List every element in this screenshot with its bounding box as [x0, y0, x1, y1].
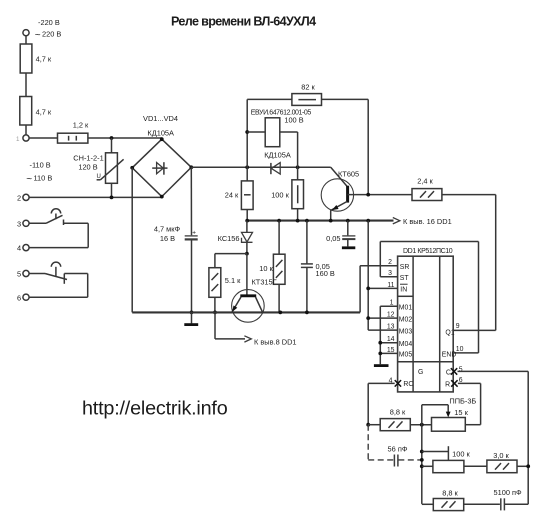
svg-text:END: END — [442, 352, 457, 359]
svg-text:6: 6 — [17, 293, 21, 302]
svg-text:КД105А: КД105А — [264, 151, 291, 160]
svg-text:1,2 к: 1,2 к — [73, 120, 89, 129]
svg-text:8,8 к: 8,8 к — [442, 488, 458, 497]
pin SR 2 — [360, 265, 398, 267]
wire main positive net y=167.3 — [191, 166, 330, 168]
pin Q1 9 — [453, 329, 496, 331]
svg-text:100 к: 100 к — [271, 191, 289, 200]
resistor 5,1k — [214, 254, 216, 268]
svg-text:15: 15 — [387, 347, 395, 354]
svg-text:R: R — [445, 381, 450, 388]
wire — [190, 167, 192, 235]
svg-text:3: 3 — [388, 270, 392, 277]
svg-text:VD1...VD4: VD1...VD4 — [143, 114, 178, 123]
svg-text:8,8 к: 8,8 к — [390, 407, 406, 416]
wire IN/M02/M03 vertical — [367, 221, 369, 331]
IC DD1 KR512PS10 — [398, 256, 454, 392]
svg-text:DD1 КР512ПС10: DD1 КР512ПС10 — [403, 248, 453, 255]
wire to pin 8 — [214, 312, 216, 339]
relay K1 EVUI.647612.001-05 — [247, 131, 265, 133]
svg-text:24 к: 24 к — [225, 191, 239, 200]
svg-text:4,7 к: 4,7 к — [36, 54, 52, 63]
svg-text:ST: ST — [400, 275, 410, 282]
diode bridge VD1...VD4 — [132, 139, 191, 196]
capacitor 0,05 (at KT605) — [347, 221, 349, 236]
wire — [25, 125, 27, 135]
svg-text:56 пФ: 56 пФ — [388, 445, 408, 454]
node terminal 5 — [23, 270, 29, 276]
svg-text:М02: М02 — [399, 316, 413, 323]
pin M04 14 — [380, 342, 397, 344]
node junction — [110, 196, 114, 200]
wire R row — [458, 382, 481, 384]
resistor 2,4k — [412, 189, 442, 201]
svg-text:ППБ-3Б: ППБ-3Б — [449, 397, 476, 406]
switch SB1 (NO pushbutton) — [29, 222, 46, 224]
wire — [25, 36, 27, 44]
capacitor 0,05 160V — [306, 221, 308, 264]
wire RC to bottom network — [368, 382, 395, 384]
svg-text:2,4 к: 2,4 к — [417, 176, 433, 185]
resistor 3,0k — [487, 460, 517, 473]
svg-text:IN: IN — [400, 287, 407, 294]
pin IN 11 — [368, 287, 397, 289]
resistor 82k — [247, 98, 292, 100]
pin M02 12 — [368, 317, 397, 319]
svg-text:G: G — [418, 369, 423, 376]
svg-text:10: 10 — [456, 346, 464, 353]
svg-text:Реле времени ВЛ-64УХЛ4: Реле времени ВЛ-64УХЛ4 — [171, 15, 316, 29]
svg-text:100 В: 100 В — [284, 116, 303, 125]
ground — [190, 311, 194, 315]
diode KD105A — [270, 163, 272, 174]
svg-text:КС156: КС156 — [218, 234, 240, 243]
wire ST to END loop — [379, 242, 381, 277]
wire — [88, 137, 162, 139]
resistor 24k — [246, 167, 248, 181]
svg-text:9: 9 — [456, 323, 460, 330]
svg-text:12: 12 — [387, 312, 395, 319]
resistor 100k (mid) — [297, 167, 299, 180]
svg-text:3,0 к: 3,0 к — [493, 451, 509, 460]
node junction — [110, 136, 114, 140]
wire — [25, 73, 27, 97]
svg-text:-220 В: -220 В — [38, 18, 60, 27]
svg-text:15 к: 15 к — [454, 408, 468, 417]
wire ground rail y=312.4 — [131, 168, 133, 313]
wire — [29, 196, 162, 198]
svg-text:SR: SR — [400, 264, 410, 271]
ground — [374, 364, 389, 367]
varistor CH-1-2-1 — [111, 138, 113, 153]
wire Q1 to 2,4k — [495, 195, 497, 331]
svg-text:КД105А: КД105А — [147, 128, 174, 137]
svg-text:RC: RC — [403, 381, 413, 388]
wire — [215, 253, 247, 255]
svg-text:2: 2 — [388, 259, 392, 266]
capacitor 5100pF — [500, 498, 502, 510]
wire from 82k down to relay and main net — [246, 99, 248, 167]
wire rail to pin16 y=220.6 — [247, 220, 393, 222]
node terminal 6 — [23, 294, 29, 300]
svg-text:КТ315Г: КТ315Г — [252, 277, 277, 286]
svg-text:16 В: 16 В — [160, 234, 175, 243]
svg-text:2: 2 — [17, 194, 21, 203]
resistor 100k (bottom, tapped) — [422, 451, 449, 453]
svg-text:11: 11 — [387, 282, 394, 289]
resistor 4,7k (lower) — [20, 97, 32, 126]
pin M03 13 — [368, 329, 397, 331]
svg-text:13: 13 — [387, 324, 395, 331]
resistor 8,8k (bottom) — [422, 503, 434, 505]
svg-text:http://electrik.info: http://electrik.info — [82, 398, 228, 420]
svg-text:~: ~ — [35, 30, 41, 41]
svg-text:М05: М05 — [399, 352, 413, 359]
pin ST 3 — [380, 276, 397, 278]
svg-text:100 к: 100 к — [452, 450, 470, 459]
wire — [367, 99, 369, 194]
svg-text:-110 В: -110 В — [30, 161, 51, 170]
svg-text:5.1 к: 5.1 к — [225, 276, 241, 285]
svg-text:1: 1 — [16, 136, 20, 143]
svg-text:+: + — [192, 229, 196, 236]
wire — [64, 222, 89, 224]
resistor 4,7k (upper) — [20, 44, 32, 73]
svg-text:C: C — [446, 369, 451, 376]
pin M05 15 — [380, 352, 397, 354]
svg-text:К выв.8 DD1: К выв.8 DD1 — [254, 337, 297, 346]
svg-text:М04: М04 — [399, 341, 413, 348]
zener KC156 — [246, 221, 248, 233]
wire M01/M04/M05 to ground — [379, 306, 381, 364]
svg-text:4,7 к: 4,7 к — [36, 108, 52, 117]
svg-text:220 В: 220 В — [42, 30, 61, 39]
transistor KT315G — [246, 254, 248, 295]
svg-text:4: 4 — [17, 244, 21, 253]
svg-text:СН-1-2-1: СН-1-2-1 — [73, 154, 103, 163]
svg-text:~: ~ — [26, 174, 32, 185]
svg-text:1: 1 — [390, 300, 394, 307]
svg-text:5: 5 — [459, 366, 463, 373]
resistor 8,8k (upper) — [368, 424, 380, 426]
wiper wire — [421, 405, 423, 504]
svg-text:КТ605: КТ605 — [338, 170, 359, 179]
svg-text:U: U — [97, 174, 101, 180]
svg-text:5100 пФ: 5100 пФ — [494, 488, 522, 497]
potentiometer PPB-3B 15k — [432, 418, 466, 432]
svg-text:4,7 мкФ: 4,7 мкФ — [154, 225, 181, 234]
capacitor 4,7uF 16V — [185, 235, 198, 237]
wire — [29, 137, 57, 139]
svg-text:К выв. 16 DD1: К выв. 16 DD1 — [403, 217, 452, 226]
svg-text:М03: М03 — [399, 328, 413, 335]
node terminal 2 — [23, 194, 29, 200]
svg-text:5: 5 — [17, 270, 21, 279]
node terminal 3 — [23, 220, 29, 226]
wire C row — [458, 370, 529, 372]
switch SB2 (NC pushbutton) — [29, 273, 45, 275]
wire — [64, 273, 87, 275]
node -220V terminal — [23, 30, 29, 36]
node terminal 4 — [23, 245, 29, 251]
resistor 1,2k (fusible) — [58, 133, 88, 143]
svg-text:160 В: 160 В — [316, 269, 335, 278]
node terminal 1 — [23, 135, 29, 141]
pin M01 1 — [380, 305, 397, 307]
transistor KT605 — [321, 179, 353, 211]
svg-text:М01: М01 — [399, 304, 413, 311]
svg-text:120 В: 120 В — [78, 163, 97, 172]
svg-text:110 В: 110 В — [34, 174, 53, 183]
svg-text:82 к: 82 к — [301, 83, 315, 92]
svg-text:14: 14 — [387, 336, 395, 343]
svg-text:0,05: 0,05 — [326, 234, 340, 243]
svg-text:10 к: 10 к — [259, 264, 273, 273]
svg-text:Q1: Q1 — [445, 329, 454, 336]
svg-text:3: 3 — [17, 219, 21, 228]
resistor 10k — [278, 221, 280, 255]
capacitor 56pF (dashed net) — [367, 425, 369, 460]
